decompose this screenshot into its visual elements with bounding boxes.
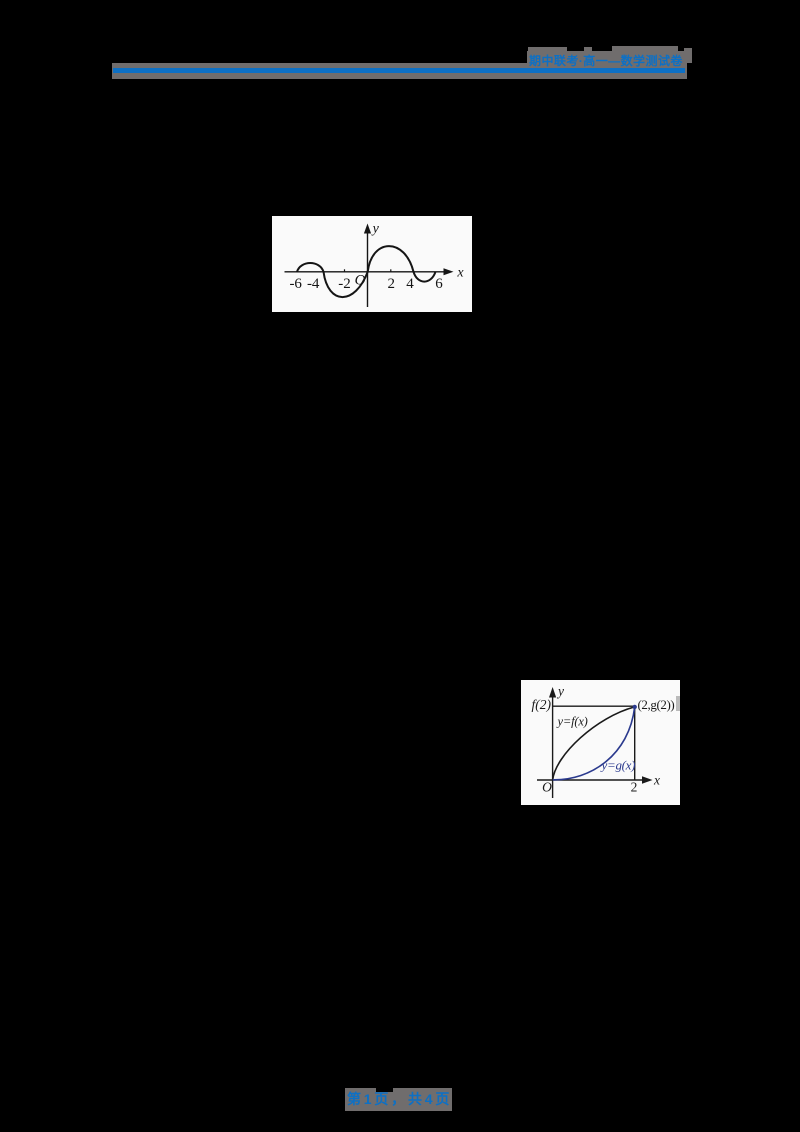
header shading notch 1 [528, 47, 567, 52]
svg-text:O: O [355, 273, 366, 289]
header shading block right stub [684, 48, 692, 63]
y-axis [552, 693, 554, 798]
y-axis arrow [549, 687, 556, 698]
svg-text:O: O [542, 780, 552, 795]
svg-text:(2,g(2)): (2,g(2)) [638, 697, 675, 712]
curve y=g(x) [553, 707, 635, 780]
x-axis arrow [444, 268, 454, 275]
svg-text:-2: -2 [338, 276, 351, 292]
footer page number text [347, 1092, 453, 1107]
header shading band behind rule [112, 63, 687, 79]
x-axis [537, 779, 644, 781]
curve y=f(x) [553, 707, 635, 780]
svg-text:4: 4 [406, 276, 414, 292]
point (2,g(2)) dot [633, 705, 637, 709]
header shading notch 2 [584, 47, 592, 52]
tick at 2 [390, 269, 392, 272]
svg-text:y: y [556, 684, 564, 699]
svg-text:2: 2 [631, 780, 638, 795]
horizontal line at f(2) [553, 705, 635, 707]
vertical line at x=2 [634, 706, 636, 780]
x-axis arrow [642, 776, 653, 783]
svg-text:x: x [456, 266, 464, 281]
footer shading block [345, 1088, 452, 1111]
svg-text:-4: -4 [307, 276, 320, 292]
svg-text:2: 2 [387, 276, 395, 292]
svg-text:-6: -6 [289, 276, 302, 292]
svg-text:y=f(x): y=f(x) [556, 715, 588, 729]
svg-text:y: y [371, 222, 380, 237]
svg-text:y=g(x): y=g(x) [600, 758, 636, 773]
curve y=f(x) wave [297, 246, 436, 297]
svg-text:x: x [653, 773, 660, 788]
figure 1: sign-wave graph [272, 216, 472, 312]
tick at -2 [344, 269, 346, 272]
header title shading block [527, 51, 687, 65]
header title text [529, 55, 689, 68]
figure 1 background [272, 216, 472, 312]
gray cursor mark right of figure 2 [676, 696, 680, 711]
y-axis arrow [364, 224, 371, 234]
figure 2 background [521, 680, 680, 805]
header shading notch 3 [612, 46, 678, 52]
figure 2: f and g curves graph [521, 680, 680, 805]
footer shading notch (black) [376, 1088, 393, 1092]
y-axis [367, 229, 369, 307]
svg-text:6: 6 [435, 276, 443, 292]
x-axis [285, 271, 447, 273]
svg-text:f(2): f(2) [532, 697, 552, 712]
header blue rule [113, 68, 685, 73]
